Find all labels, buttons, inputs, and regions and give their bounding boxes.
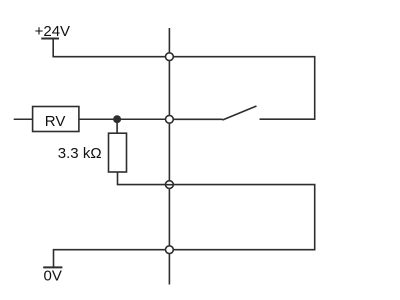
svg-text:RV: RV	[45, 113, 66, 130]
svg-text:3.3 kΩ: 3.3 kΩ	[58, 145, 102, 162]
svg-text:+24V: +24V	[35, 23, 70, 40]
svg-text:0V: 0V	[44, 267, 62, 284]
